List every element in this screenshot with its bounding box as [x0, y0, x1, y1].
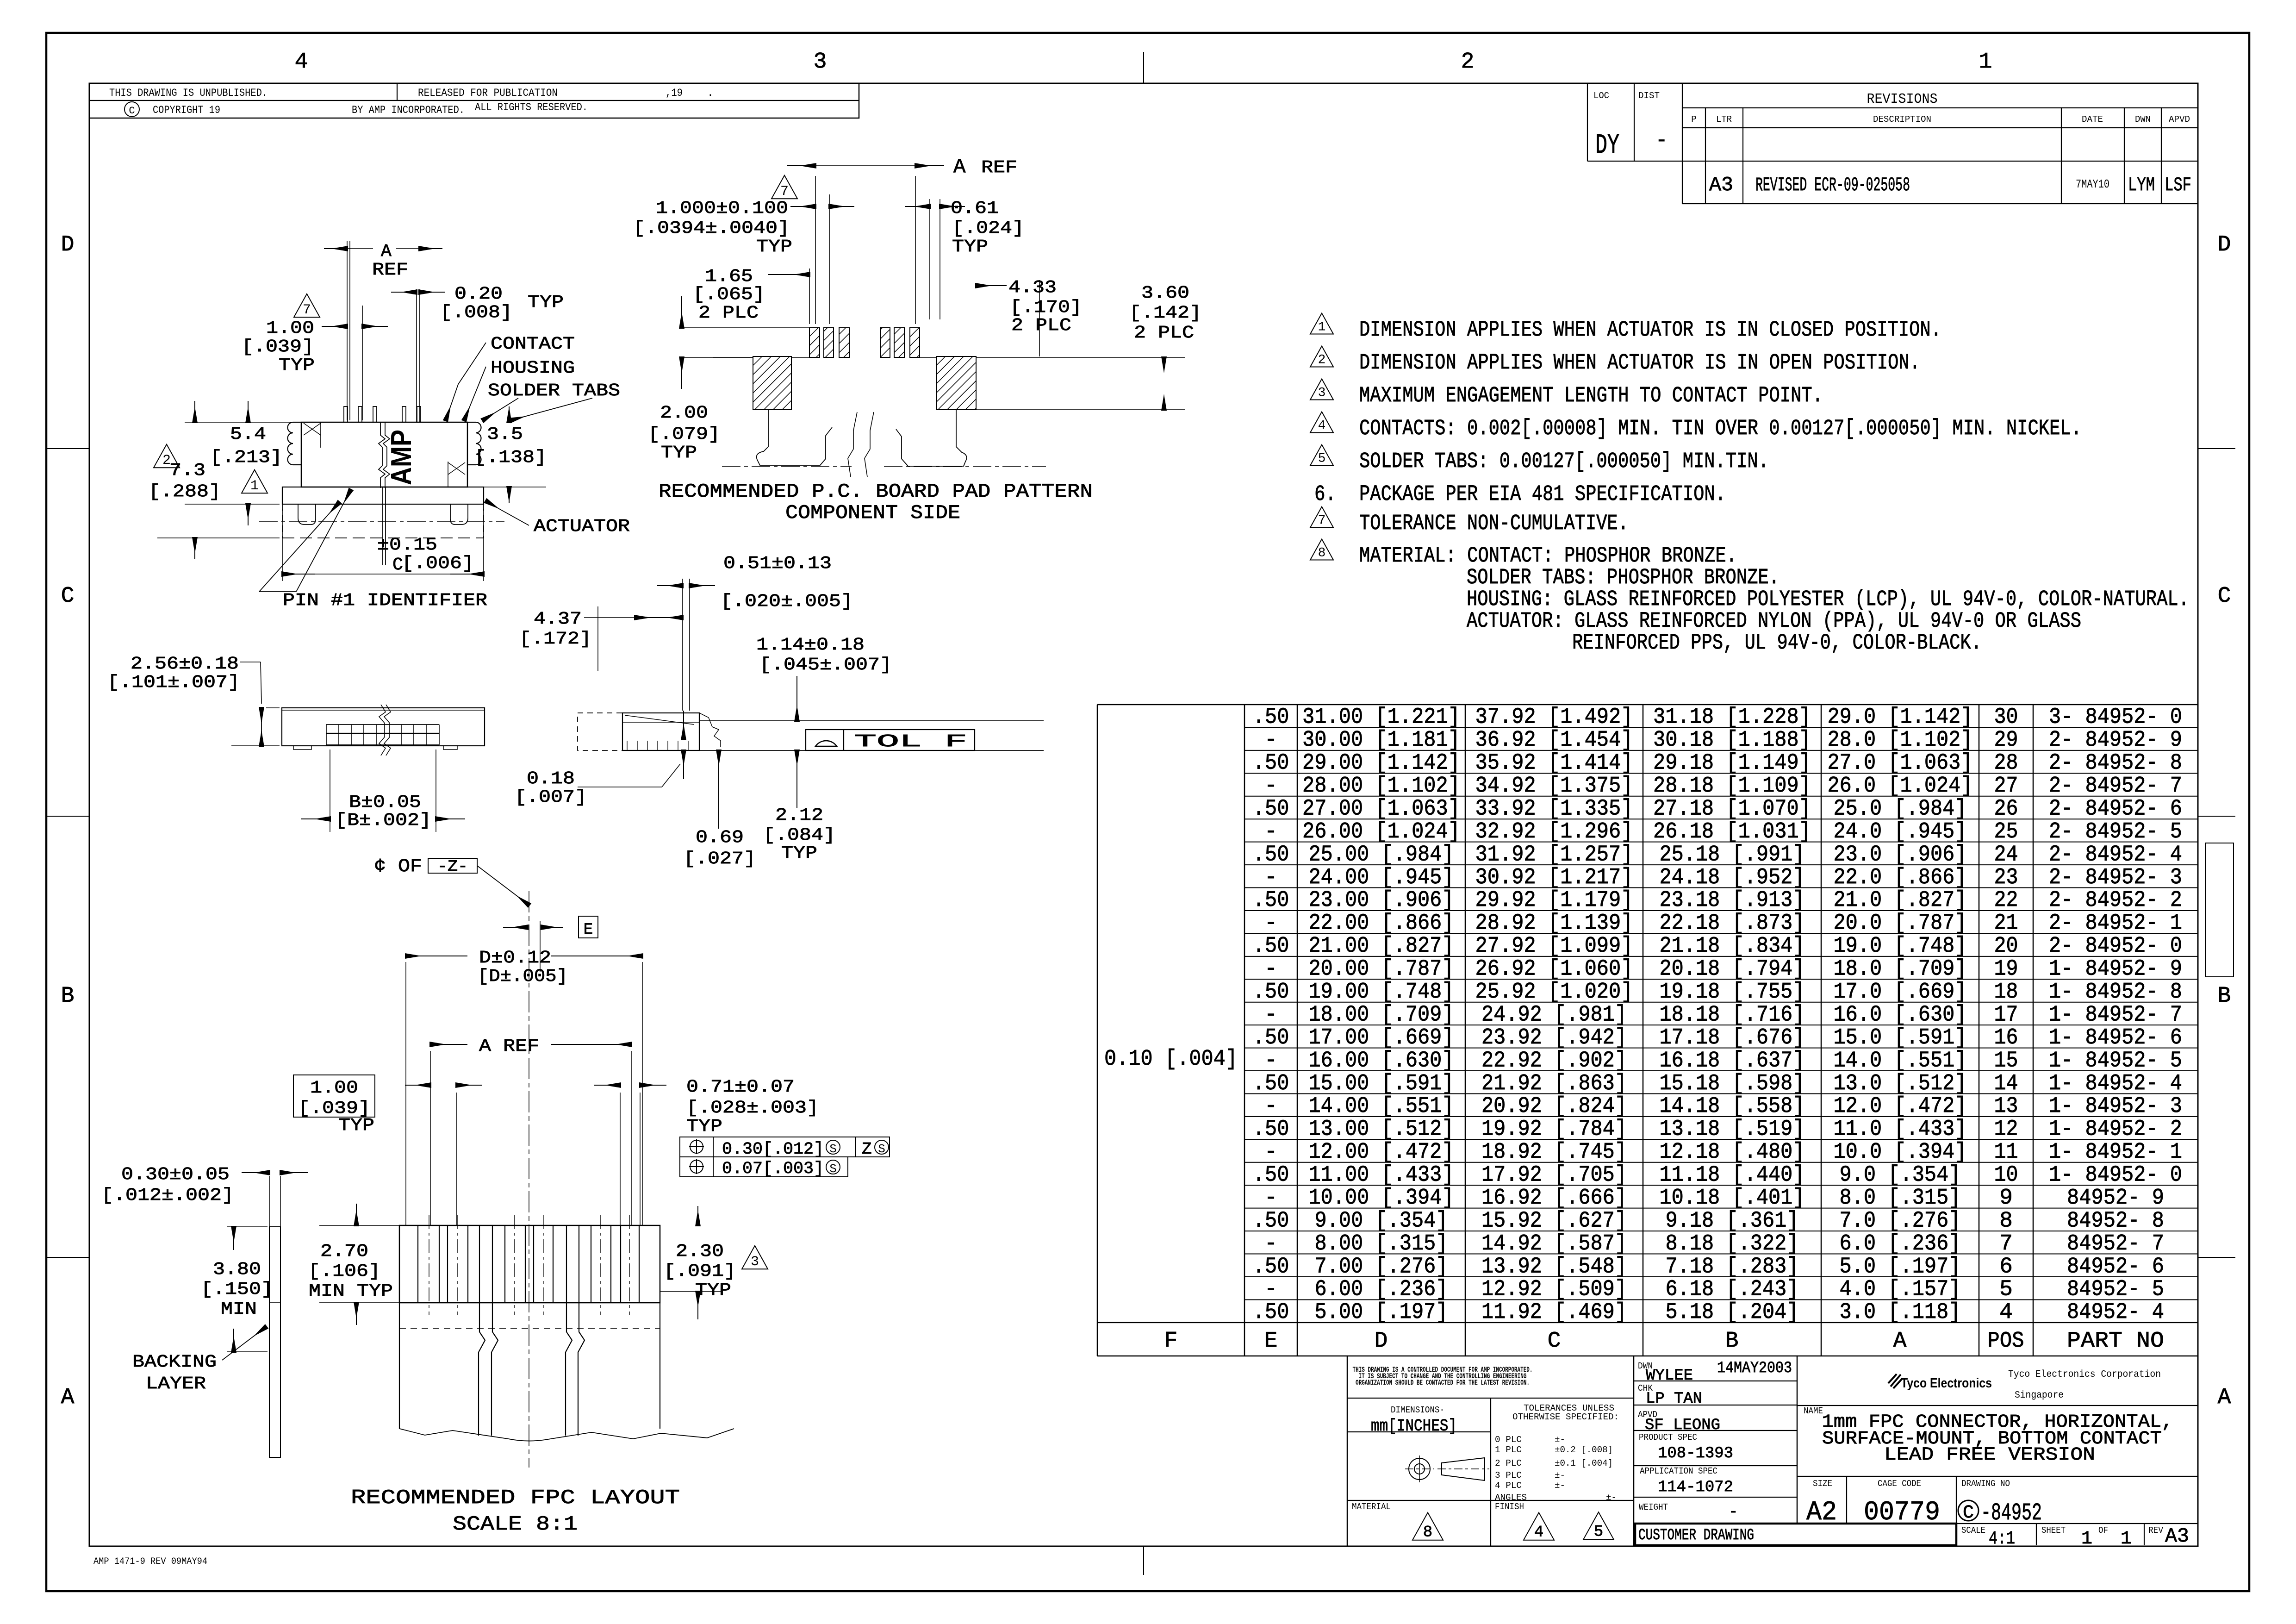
svg-text:AMP: AMP — [386, 430, 417, 485]
svg-text:3.5: 3.5 — [487, 425, 523, 444]
svg-text:29.18 [1.149]: 29.18 [1.149] — [1653, 751, 1811, 776]
svg-text:-: - — [1264, 728, 1278, 753]
svg-text:8: 8 — [1999, 1208, 2013, 1233]
svg-text:14.00 [.551]: 14.00 [.551] — [1309, 1094, 1454, 1119]
svg-text:22.92 [.902]: 22.92 [.902] — [1481, 1048, 1627, 1073]
svg-text:2- 84952- 7: 2- 84952- 7 — [2049, 774, 2182, 799]
svg-text:-84952: -84952 — [1981, 1499, 2042, 1527]
svg-text:PACKAGE PER EIA 481 SPECIFICAT: PACKAGE PER EIA 481 SPECIFICATION. — [1359, 482, 1726, 507]
svg-text:36.92 [1.454]: 36.92 [1.454] — [1475, 728, 1633, 753]
svg-text:.50: .50 — [1253, 796, 1289, 821]
svg-text:WEIGHT: WEIGHT — [1639, 1502, 1668, 1512]
svg-text:23: 23 — [1994, 865, 2018, 890]
svg-text:S: S — [829, 1142, 837, 1156]
svg-text:2.70: 2.70 — [320, 1242, 368, 1262]
svg-text:RECOMMENDED P.C. BOARD PAD PAT: RECOMMENDED P.C. BOARD PAD PATTERN — [659, 481, 1093, 503]
svg-text:2.56±0.18: 2.56±0.18 — [131, 654, 239, 674]
svg-text:ACTUATOR: ACTUATOR — [534, 517, 630, 537]
svg-text:32.92 [1.296]: 32.92 [1.296] — [1475, 819, 1633, 844]
svg-text:TYP: TYP — [952, 237, 988, 257]
svg-text:LAYER: LAYER — [146, 1374, 206, 1394]
svg-text:16.92 [.666]: 16.92 [.666] — [1481, 1186, 1627, 1211]
svg-text:4.33: 4.33 — [1008, 278, 1057, 298]
svg-text:19.18 [.755]: 19.18 [.755] — [1660, 980, 1805, 1005]
svg-text:TYP: TYP — [338, 1116, 374, 1136]
svg-text:[.091]: [.091] — [664, 1262, 736, 1281]
svg-text:mm[INCHES]: mm[INCHES] — [1371, 1417, 1457, 1436]
svg-text:2- 84952- 3: 2- 84952- 3 — [2049, 865, 2182, 890]
svg-text:C: C — [1548, 1329, 1561, 1354]
svg-text:12.92 [.509]: 12.92 [.509] — [1481, 1277, 1627, 1302]
svg-text:P: P — [1691, 114, 1696, 125]
svg-text:9.0 [.354]: 9.0 [.354] — [1840, 1163, 1961, 1188]
svg-text:[.020±.005]: [.020±.005] — [721, 592, 853, 612]
svg-text:1.14±0.18: 1.14±0.18 — [756, 635, 865, 655]
svg-text:,19: ,19 — [666, 87, 683, 99]
svg-text:[.170]: [.170] — [1010, 298, 1082, 318]
svg-text:20.00 [.787]: 20.00 [.787] — [1309, 957, 1454, 982]
svg-text:29.00 [1.142]: 29.00 [1.142] — [1302, 751, 1460, 776]
svg-text:BACKING: BACKING — [132, 1352, 217, 1372]
svg-text:0.20: 0.20 — [454, 284, 503, 304]
svg-text:19.92 [.784]: 19.92 [.784] — [1481, 1117, 1627, 1142]
svg-text:26.18 [1.031]: 26.18 [1.031] — [1653, 819, 1811, 844]
svg-text:3: 3 — [751, 1254, 759, 1270]
svg-text:-: - — [1264, 1002, 1278, 1027]
svg-text:28.92 [1.139]: 28.92 [1.139] — [1475, 911, 1633, 936]
svg-text:23.0 [.906]: 23.0 [.906] — [1834, 842, 1967, 867]
svg-text:COPYRIGHT 19: COPYRIGHT 19 — [153, 104, 220, 116]
svg-text:11.18 [.440]: 11.18 [.440] — [1660, 1163, 1805, 1188]
svg-text:-: - — [1264, 957, 1278, 982]
svg-text:12: 12 — [1994, 1117, 2018, 1142]
svg-text:APVD: APVD — [2169, 114, 2190, 125]
svg-text:-: - — [1655, 129, 1668, 152]
svg-text:DY: DY — [1595, 130, 1619, 162]
svg-text:2 PLC: 2 PLC — [698, 303, 759, 323]
svg-text:5: 5 — [1318, 452, 1326, 466]
svg-text:DIST: DIST — [1638, 91, 1660, 101]
svg-text:17: 17 — [1994, 1002, 2018, 1027]
svg-text:MIN: MIN — [221, 1299, 257, 1319]
svg-text:20.92 [.824]: 20.92 [.824] — [1481, 1094, 1627, 1119]
svg-text:30: 30 — [1994, 705, 2018, 730]
svg-text:24.00 [.945]: 24.00 [.945] — [1309, 865, 1454, 890]
svg-text:2- 84952- 5: 2- 84952- 5 — [2049, 819, 2182, 844]
svg-text:2.12: 2.12 — [775, 806, 823, 825]
svg-text:2: 2 — [1318, 353, 1326, 368]
svg-text:7.18 [.283]: 7.18 [.283] — [1666, 1254, 1799, 1279]
svg-text:37.92 [1.492]: 37.92 [1.492] — [1475, 705, 1633, 730]
svg-text:[.024]: [.024] — [952, 219, 1024, 238]
svg-text:14MAY2003: 14MAY2003 — [1717, 1360, 1792, 1377]
svg-text:31.00 [1.221]: 31.00 [1.221] — [1302, 705, 1460, 730]
svg-text:9.00 [.354]: 9.00 [.354] — [1315, 1208, 1448, 1233]
svg-text:HOUSING: HOUSING — [491, 358, 575, 378]
svg-text:.50: .50 — [1253, 1254, 1289, 1279]
svg-text:REVISIONS: REVISIONS — [1867, 91, 1938, 107]
svg-text:[.106]: [.106] — [308, 1262, 380, 1281]
svg-text:CUSTOMER DRAWING: CUSTOMER DRAWING — [1638, 1527, 1754, 1544]
svg-text:TYP: TYP — [686, 1117, 722, 1137]
svg-text:1.000±0.100: 1.000±0.100 — [656, 199, 788, 219]
svg-text:2- 84952- 2: 2- 84952- 2 — [2049, 888, 2182, 913]
svg-text:2- 84952- 1: 2- 84952- 1 — [2049, 911, 2182, 936]
svg-text:20.0 [.787]: 20.0 [.787] — [1834, 911, 1967, 936]
svg-text:7: 7 — [303, 302, 311, 318]
svg-text:TYP: TYP — [528, 293, 564, 312]
svg-text:18.00 [.709]: 18.00 [.709] — [1309, 1002, 1454, 1027]
svg-text:18.92 [.745]: 18.92 [.745] — [1481, 1140, 1627, 1165]
svg-text:MIN TYP: MIN TYP — [309, 1281, 393, 1301]
svg-text:SCALE 8:1: SCALE 8:1 — [453, 1513, 578, 1536]
svg-text:SOLDER TABS: SOLDER TABS — [488, 381, 620, 401]
svg-text:A REF: A REF — [479, 1037, 539, 1056]
svg-text:1: 1 — [1979, 50, 1992, 75]
svg-text:-: - — [1264, 1231, 1278, 1256]
svg-text:28.18 [1.109]: 28.18 [1.109] — [1653, 774, 1811, 799]
svg-text:[.008]: [.008] — [440, 303, 512, 323]
svg-text:-: - — [1729, 1504, 1738, 1521]
svg-text:DIMENSIONS·: DIMENSIONS· — [1391, 1405, 1444, 1415]
svg-text:29.0 [1.142]: 29.0 [1.142] — [1828, 705, 1973, 730]
svg-text:2- 84952- 6: 2- 84952- 6 — [2049, 796, 2182, 821]
svg-text:MATERIAL: CONTACT: PHOSPHOR BR: MATERIAL: CONTACT: PHOSPHOR BRONZE. — [1359, 544, 1737, 568]
svg-text:16.18 [.637]: 16.18 [.637] — [1660, 1048, 1805, 1073]
svg-text:17.0 [.669]: 17.0 [.669] — [1834, 980, 1967, 1005]
svg-text:C: C — [61, 584, 75, 609]
svg-text:22: 22 — [1994, 888, 2018, 913]
svg-text:ACTUATOR: GLASS REINFORCED NYL: ACTUATOR: GLASS REINFORCED NYLON (PPA), … — [1467, 609, 2081, 634]
svg-text:12.0 [.472]: 12.0 [.472] — [1834, 1094, 1967, 1119]
svg-text:4: 4 — [295, 50, 308, 75]
svg-text:1- 84952- 9: 1- 84952- 9 — [2049, 957, 2182, 982]
svg-text:7: 7 — [1318, 514, 1326, 528]
svg-text:±0.2 [.008]: ±0.2 [.008] — [1555, 1445, 1613, 1455]
svg-text:SOLDER TABS: 0.00127[.000050]: SOLDER TABS: 0.00127[.000050] MIN.TIN. — [1359, 450, 1769, 474]
svg-text:Z: Z — [862, 1140, 872, 1159]
svg-text:SF LEONG: SF LEONG — [1645, 1417, 1720, 1434]
svg-text:±-: ±- — [1606, 1493, 1617, 1503]
svg-text:3.80: 3.80 — [213, 1260, 261, 1280]
svg-text:-: - — [1264, 1140, 1278, 1165]
svg-text:PART NO: PART NO — [2067, 1329, 2164, 1354]
svg-text:2.30: 2.30 — [676, 1242, 724, 1262]
svg-text:6.: 6. — [1314, 482, 1336, 507]
svg-text:1.00: 1.00 — [310, 1078, 358, 1098]
svg-text:114-1072: 114-1072 — [1658, 1479, 1733, 1496]
svg-text:THIS DRAWING IS UNPUBLISHED.: THIS DRAWING IS UNPUBLISHED. — [109, 87, 268, 99]
svg-text:SHEET: SHEET — [2041, 1525, 2066, 1536]
svg-text:16.00 [.630]: 16.00 [.630] — [1309, 1048, 1454, 1073]
svg-text:26.0 [1.024]: 26.0 [1.024] — [1828, 774, 1973, 799]
svg-text:84952- 8: 84952- 8 — [2067, 1208, 2164, 1233]
svg-text:ANGLES: ANGLES — [1495, 1493, 1527, 1503]
svg-text:10.18 [.401]: 10.18 [.401] — [1660, 1186, 1805, 1211]
svg-text:LYM: LYM — [2128, 174, 2155, 196]
svg-text:2: 2 — [1461, 50, 1475, 75]
svg-text:.: . — [707, 87, 714, 99]
svg-text:7.00 [.276]: 7.00 [.276] — [1315, 1254, 1448, 1279]
svg-text:A3: A3 — [1709, 174, 1733, 197]
svg-text:SOLDER TABS: PHOSPHOR BRONZE.: SOLDER TABS: PHOSPHOR BRONZE. — [1467, 566, 1780, 590]
svg-text:5.0 [.197]: 5.0 [.197] — [1840, 1254, 1961, 1279]
svg-text:DIMENSION APPLIES WHEN ACTUATO: DIMENSION APPLIES WHEN ACTUATOR IS IN CL… — [1359, 318, 1941, 343]
svg-text:[.0394±.0040]: [.0394±.0040] — [633, 219, 790, 238]
svg-text:.50: .50 — [1253, 842, 1289, 867]
svg-text:0 PLC: 0 PLC — [1495, 1435, 1522, 1445]
svg-text:1: 1 — [2081, 1529, 2092, 1549]
svg-text:±0.15: ±0.15 — [377, 535, 437, 555]
svg-text:1- 84952- 8: 1- 84952- 8 — [2049, 980, 2182, 1005]
svg-text:23.18 [.913]: 23.18 [.913] — [1660, 888, 1805, 913]
svg-text:TYP: TYP — [661, 443, 697, 463]
svg-text:±-: ±- — [1555, 1470, 1565, 1480]
svg-text:F: F — [1164, 1329, 1178, 1354]
svg-text:30.18 [1.188]: 30.18 [1.188] — [1653, 728, 1811, 753]
svg-text:±-: ±- — [1555, 1435, 1565, 1445]
svg-text:ORGANIZATION SHOULD BE CONTACT: ORGANIZATION SHOULD BE CONTACTED FOR THE… — [1356, 1379, 1530, 1387]
svg-text:11.00 [.433]: 11.00 [.433] — [1309, 1163, 1454, 1188]
svg-text:30.00 [1.181]: 30.00 [1.181] — [1302, 728, 1460, 753]
svg-text:14.18 [.558]: 14.18 [.558] — [1660, 1094, 1805, 1119]
svg-text:MATERIAL: MATERIAL — [1352, 1502, 1391, 1512]
svg-text:1- 84952- 2: 1- 84952- 2 — [2049, 1117, 2182, 1142]
svg-text:84952- 4: 84952- 4 — [2067, 1300, 2164, 1325]
svg-text:CONTACTS: 0.002[.00008] MIN. T: CONTACTS: 0.002[.00008] MIN. TIN OVER 0.… — [1359, 417, 2082, 441]
svg-text:LSF: LSF — [2165, 174, 2191, 196]
svg-text:.50: .50 — [1253, 1163, 1289, 1188]
svg-text:REV: REV — [2148, 1525, 2164, 1536]
svg-text:11: 11 — [1994, 1140, 2018, 1165]
svg-text:-: - — [1264, 819, 1278, 844]
svg-text:3.60: 3.60 — [1141, 283, 1189, 303]
svg-text:SIZE: SIZE — [1813, 1479, 1832, 1489]
svg-text:.50: .50 — [1253, 1208, 1289, 1233]
svg-text:27.92 [1.099]: 27.92 [1.099] — [1475, 934, 1633, 959]
svg-text:[.027]: [.027] — [684, 849, 756, 869]
svg-text:±0.1 [.004]: ±0.1 [.004] — [1555, 1458, 1613, 1468]
svg-text:19.00 [.748]: 19.00 [.748] — [1309, 980, 1454, 1005]
svg-text:.50: .50 — [1253, 1071, 1289, 1096]
svg-text:DATE: DATE — [2082, 114, 2103, 125]
svg-text:8.18 [.322]: 8.18 [.322] — [1666, 1231, 1799, 1256]
svg-text:-Z-: -Z- — [437, 858, 468, 876]
svg-text:2- 84952- 4: 2- 84952- 4 — [2049, 842, 2182, 867]
svg-text:REF: REF — [372, 260, 408, 280]
svg-text:RELEASED FOR PUBLICATION: RELEASED FOR PUBLICATION — [418, 87, 558, 99]
svg-text:5.18 [.204]: 5.18 [.204] — [1666, 1300, 1799, 1325]
svg-text:1- 84952- 7: 1- 84952- 7 — [2049, 1002, 2182, 1027]
svg-text:PRODUCT SPEC: PRODUCT SPEC — [1639, 1432, 1697, 1443]
svg-text:DWN: DWN — [2135, 114, 2151, 125]
svg-text:OTHERWISE SPECIFIED:: OTHERWISE SPECIFIED: — [1512, 1412, 1619, 1422]
svg-text:2.00: 2.00 — [660, 403, 708, 423]
svg-text:27: 27 — [1994, 774, 2018, 799]
svg-text:¢ OF: ¢ OF — [374, 856, 422, 877]
svg-text:TOL F: TOL F — [854, 732, 967, 752]
svg-text:LEAD FREE VERSION: LEAD FREE VERSION — [1884, 1445, 2095, 1466]
svg-text:TYP: TYP — [695, 1280, 731, 1300]
svg-text:25: 25 — [1994, 819, 2018, 844]
svg-text:29: 29 — [1994, 728, 2018, 753]
svg-text:S: S — [878, 1142, 885, 1156]
svg-text:[.012±.002]: [.012±.002] — [101, 1186, 234, 1206]
svg-text:D: D — [2218, 232, 2231, 257]
svg-text:TYP: TYP — [781, 843, 817, 863]
svg-text:CAGE CODE: CAGE CODE — [1878, 1479, 1921, 1489]
svg-text:22.18 [.873]: 22.18 [.873] — [1660, 911, 1805, 936]
svg-text:14.92 [.587]: 14.92 [.587] — [1481, 1231, 1627, 1256]
svg-text:00779: 00779 — [1864, 1498, 1940, 1528]
svg-text:-: - — [1264, 774, 1278, 799]
svg-text:4: 4 — [1318, 419, 1326, 433]
svg-text:5.4: 5.4 — [230, 425, 266, 444]
svg-text:13: 13 — [1994, 1094, 2018, 1119]
svg-text:1 PLC: 1 PLC — [1495, 1445, 1522, 1455]
svg-text:4: 4 — [1999, 1300, 2013, 1325]
svg-text:.50: .50 — [1253, 888, 1289, 913]
svg-text:A2: A2 — [1806, 1498, 1837, 1528]
svg-text:16: 16 — [1994, 1025, 2018, 1050]
svg-text:1: 1 — [2121, 1529, 2132, 1549]
svg-text:31.18 [1.228]: 31.18 [1.228] — [1653, 705, 1811, 730]
svg-text:0.10 [.004]: 0.10 [.004] — [1104, 1047, 1238, 1072]
svg-text:0.61: 0.61 — [951, 199, 999, 219]
svg-text:D: D — [1375, 1329, 1388, 1354]
svg-text:Tyco Electronics Corporation: Tyco Electronics Corporation — [2008, 1369, 2161, 1380]
svg-text:24.92 [.981]: 24.92 [.981] — [1481, 1002, 1627, 1027]
svg-text:.50: .50 — [1253, 1117, 1289, 1142]
svg-text:TOLERANCE NON-CUMULATIVE.: TOLERANCE NON-CUMULATIVE. — [1359, 512, 1629, 536]
svg-text:C: C — [129, 105, 135, 117]
svg-text:33.92 [1.335]: 33.92 [1.335] — [1475, 796, 1633, 821]
svg-text:27.0 [1.063]: 27.0 [1.063] — [1828, 751, 1973, 776]
svg-text:[.006]: [.006] — [402, 554, 474, 574]
svg-text:0.30±0.05: 0.30±0.05 — [121, 1165, 230, 1185]
svg-text:21.92 [.863]: 21.92 [.863] — [1481, 1071, 1627, 1096]
svg-text:0.30[.012]: 0.30[.012] — [722, 1140, 824, 1159]
svg-text:26.92 [1.060]: 26.92 [1.060] — [1475, 957, 1633, 982]
svg-text:A: A — [2218, 1385, 2231, 1410]
svg-text:OF: OF — [2098, 1525, 2108, 1536]
svg-text:11.92 [.469]: 11.92 [.469] — [1481, 1300, 1627, 1325]
svg-text:E: E — [584, 921, 593, 939]
svg-text:-: - — [1264, 1048, 1278, 1073]
svg-text:D: D — [61, 232, 75, 257]
svg-text:1.00: 1.00 — [266, 319, 314, 338]
svg-text:REF: REF — [981, 158, 1017, 178]
svg-text:FINISH: FINISH — [1495, 1502, 1524, 1512]
svg-text:13.0 [.512]: 13.0 [.512] — [1834, 1071, 1967, 1096]
svg-text:24.18 [.952]: 24.18 [.952] — [1660, 865, 1805, 890]
svg-text:0.71±0.07: 0.71±0.07 — [686, 1077, 795, 1097]
svg-text:[.039]: [.039] — [242, 337, 314, 357]
svg-text:23.92 [.942]: 23.92 [.942] — [1481, 1025, 1627, 1050]
svg-text:5.00 [.197]: 5.00 [.197] — [1315, 1300, 1448, 1325]
svg-text:[.172]: [.172] — [519, 629, 591, 649]
svg-text:0.69: 0.69 — [696, 828, 744, 848]
svg-text:RECOMMENDED FPC LAYOUT: RECOMMENDED FPC LAYOUT — [351, 1487, 680, 1510]
svg-text:[.028±.003]: [.028±.003] — [686, 1098, 819, 1118]
svg-text:31.92 [1.257]: 31.92 [1.257] — [1475, 842, 1633, 867]
svg-text:10: 10 — [1994, 1163, 2018, 1188]
svg-text:.50: .50 — [1253, 1300, 1289, 1325]
svg-text:1- 84952- 5: 1- 84952- 5 — [2049, 1048, 2182, 1073]
svg-text:26.00 [1.024]: 26.00 [1.024] — [1302, 819, 1460, 844]
svg-text:30.92 [1.217]: 30.92 [1.217] — [1475, 865, 1633, 890]
svg-text:25.18 [.991]: 25.18 [.991] — [1660, 842, 1805, 867]
svg-text:1- 84952- 0: 1- 84952- 0 — [2049, 1163, 2182, 1188]
svg-text:34.92 [1.375]: 34.92 [1.375] — [1475, 774, 1633, 799]
svg-text:27.18 [1.070]: 27.18 [1.070] — [1653, 796, 1811, 821]
svg-text:LTR: LTR — [1716, 114, 1732, 125]
svg-text:A: A — [953, 156, 966, 179]
svg-text:8: 8 — [1318, 546, 1326, 561]
svg-text:84952- 5: 84952- 5 — [2067, 1277, 2164, 1302]
svg-text:1: 1 — [1318, 320, 1326, 335]
svg-text:.50: .50 — [1253, 705, 1289, 730]
svg-text:4.0 [.157]: 4.0 [.157] — [1840, 1277, 1961, 1302]
svg-text:15: 15 — [1994, 1048, 2018, 1073]
svg-text:0.51±0.13: 0.51±0.13 — [723, 554, 832, 574]
svg-text:26: 26 — [1994, 796, 2018, 821]
svg-text:18.0 [.709]: 18.0 [.709] — [1834, 957, 1967, 982]
svg-text:HOUSING: GLASS REINFORCED POLY: HOUSING: GLASS REINFORCED POLYESTER (LCP… — [1467, 587, 2189, 612]
svg-text:21: 21 — [1994, 911, 2018, 936]
svg-text:2- 84952- 9: 2- 84952- 9 — [2049, 728, 2182, 753]
svg-text:108-1393: 108-1393 — [1658, 1445, 1733, 1462]
svg-text:APPLICATION SPEC: APPLICATION SPEC — [1640, 1466, 1717, 1476]
svg-text:POS: POS — [1988, 1329, 2024, 1354]
svg-text:10.00 [.394]: 10.00 [.394] — [1309, 1186, 1454, 1211]
svg-text:TYP: TYP — [279, 356, 315, 375]
svg-text:2 PLC: 2 PLC — [1011, 316, 1071, 336]
svg-text:13.92 [.548]: 13.92 [.548] — [1481, 1254, 1627, 1279]
svg-text:8.00 [.315]: 8.00 [.315] — [1315, 1231, 1448, 1256]
svg-text:COMPONENT SIDE: COMPONENT SIDE — [785, 502, 960, 524]
svg-text:28.0 [1.102]: 28.0 [1.102] — [1828, 728, 1973, 753]
svg-text:8: 8 — [1423, 1524, 1432, 1542]
svg-text:TYP: TYP — [756, 237, 792, 257]
svg-text:[.045±.007]: [.045±.007] — [759, 655, 892, 675]
svg-text:1- 84952- 3: 1- 84952- 3 — [2049, 1094, 2182, 1119]
svg-text:4:1: 4:1 — [1989, 1529, 2015, 1549]
svg-text:12.00 [.472]: 12.00 [.472] — [1309, 1140, 1454, 1165]
svg-text:14: 14 — [1994, 1071, 2018, 1096]
svg-text:PIN #1 IDENTIFIER: PIN #1 IDENTIFIER — [283, 591, 487, 611]
svg-text:.50: .50 — [1253, 980, 1289, 1005]
svg-text:DIMENSION APPLIES WHEN ACTUATO: DIMENSION APPLIES WHEN ACTUATOR IS IN OP… — [1359, 351, 1920, 375]
svg-text:±-: ±- — [1555, 1480, 1565, 1491]
svg-text:[.150]: [.150] — [201, 1280, 273, 1299]
svg-text:2- 84952- 0: 2- 84952- 0 — [2049, 934, 2182, 959]
svg-text:6.18 [.243]: 6.18 [.243] — [1666, 1277, 1799, 1302]
svg-text:11.0 [.433]: 11.0 [.433] — [1834, 1117, 1967, 1142]
svg-text:21.18 [.834]: 21.18 [.834] — [1660, 934, 1805, 959]
svg-text:0.18: 0.18 — [527, 769, 575, 789]
svg-text:17.92 [.705]: 17.92 [.705] — [1481, 1163, 1627, 1188]
svg-text:1: 1 — [250, 478, 259, 494]
svg-text:28: 28 — [1994, 751, 2018, 776]
svg-text:24.0 [.945]: 24.0 [.945] — [1834, 819, 1967, 844]
svg-text:[.065]: [.065] — [693, 285, 765, 305]
svg-text:21.00 [.827]: 21.00 [.827] — [1309, 934, 1454, 959]
svg-text:12.18 [.480]: 12.18 [.480] — [1660, 1140, 1805, 1165]
svg-text:7MAY10: 7MAY10 — [2076, 177, 2109, 191]
svg-text:.50: .50 — [1253, 1025, 1289, 1050]
svg-text:2- 84952- 8: 2- 84952- 8 — [2049, 751, 2182, 776]
